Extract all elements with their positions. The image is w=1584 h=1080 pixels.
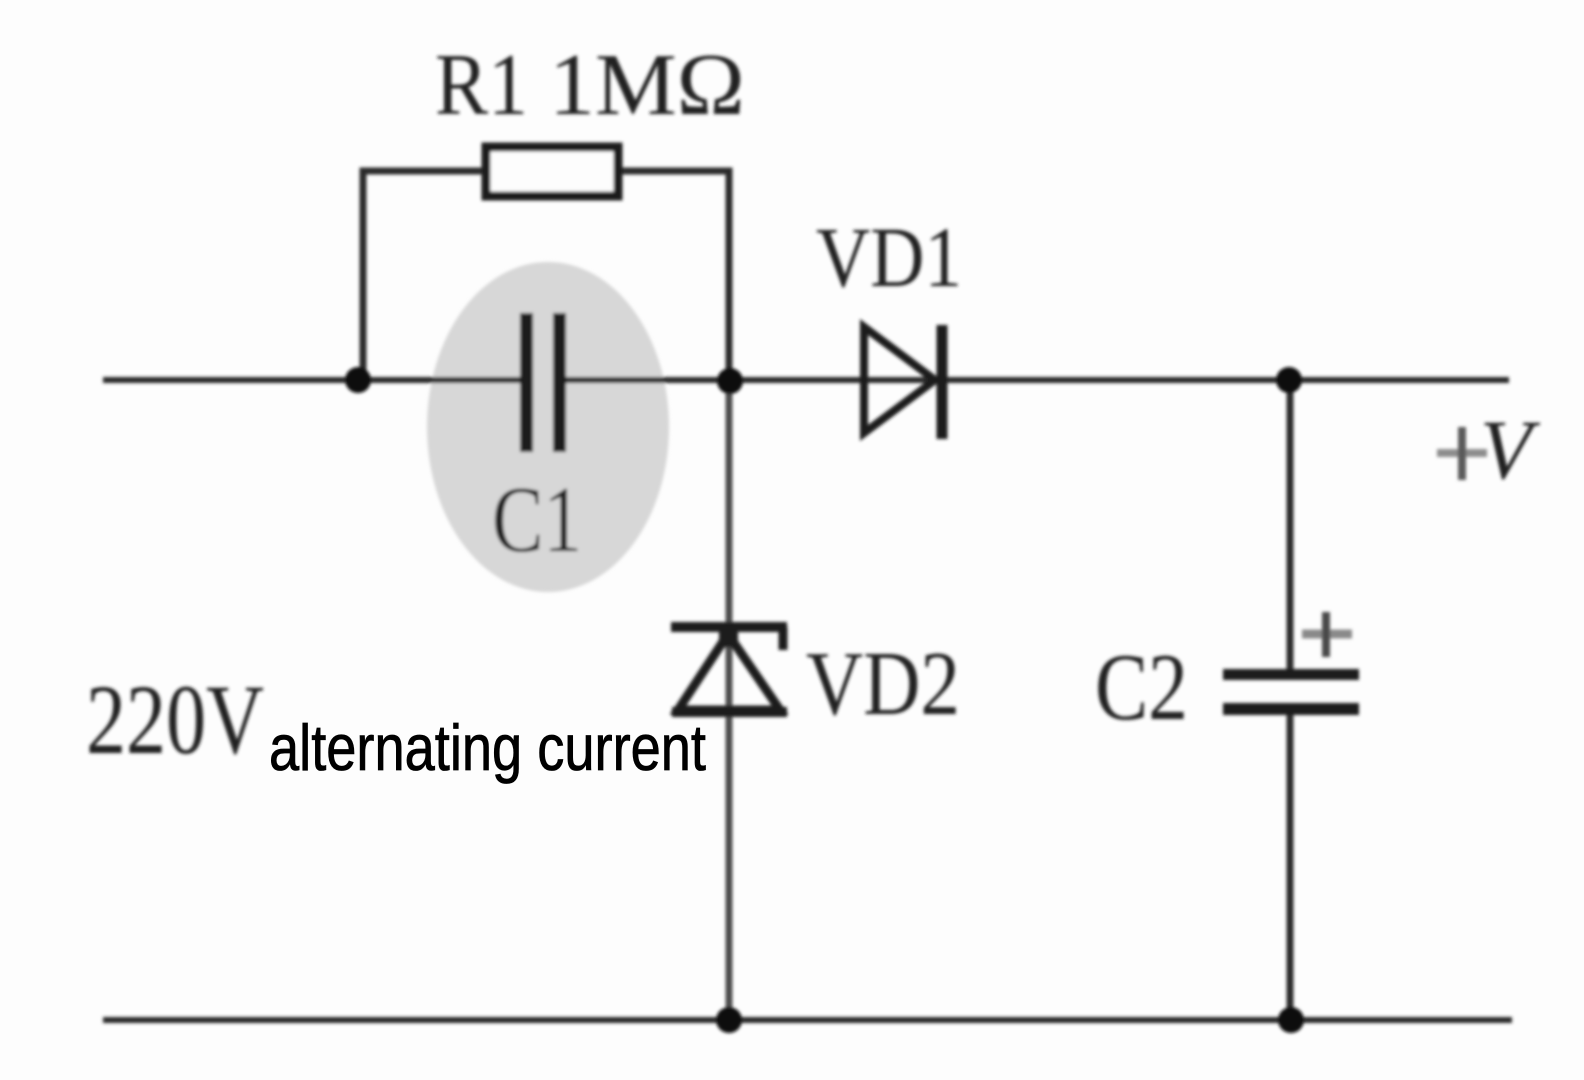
svg-text:VD2: VD2	[806, 633, 960, 734]
svg-text:alternating current: alternating current	[269, 711, 706, 784]
bottom rail wire	[103, 1017, 1512, 1023]
resistor R1	[486, 147, 618, 196]
node junction dot (right top, C2 tap)	[1276, 367, 1302, 393]
label alternating current	[269, 711, 706, 784]
diode VD1	[864, 325, 942, 439]
label C2	[1095, 634, 1188, 740]
label VD2	[806, 633, 960, 734]
wire R1 loop	[363, 171, 729, 380]
wire VD2 branch (junction down to bottom rail)	[726, 380, 733, 1020]
label VD1	[816, 209, 962, 305]
top rail wire (left segment to C1 left plate)	[103, 377, 521, 383]
wire C2 branch (bottom)	[1287, 715, 1294, 1020]
top rail wire (right segment from C1 right plate to +V end)	[566, 377, 1509, 383]
svg-text:VD1: VD1	[816, 209, 962, 305]
capacitor C1 plates	[520, 313, 566, 452]
svg-text:220V: 220V	[86, 664, 264, 775]
svg-text:R1: R1	[435, 37, 528, 134]
C1 highlight ellipse	[427, 262, 669, 592]
capacitor C2 plates	[1223, 669, 1359, 715]
label R1 1MΩ	[435, 37, 745, 134]
polarity plus of C2	[1302, 612, 1352, 657]
node junction dot (bottom, VD2)	[716, 1007, 742, 1033]
zener diode VD2	[671, 625, 787, 712]
label C1	[492, 468, 582, 572]
node junction dot (center top, VD2 tap)	[717, 368, 743, 394]
svg-text:1MΩ: 1MΩ	[549, 37, 745, 134]
svg-text:V: V	[1480, 403, 1541, 497]
node junction dot (left, R1/C1 tap)	[345, 367, 371, 393]
svg-text:C2: C2	[1095, 634, 1188, 740]
svg-text:C1: C1	[492, 468, 582, 572]
wire C2 branch (top)	[1287, 380, 1294, 671]
label +V	[1437, 403, 1541, 497]
label 220V	[86, 664, 264, 775]
node junction dot (bottom, C2)	[1278, 1007, 1304, 1033]
